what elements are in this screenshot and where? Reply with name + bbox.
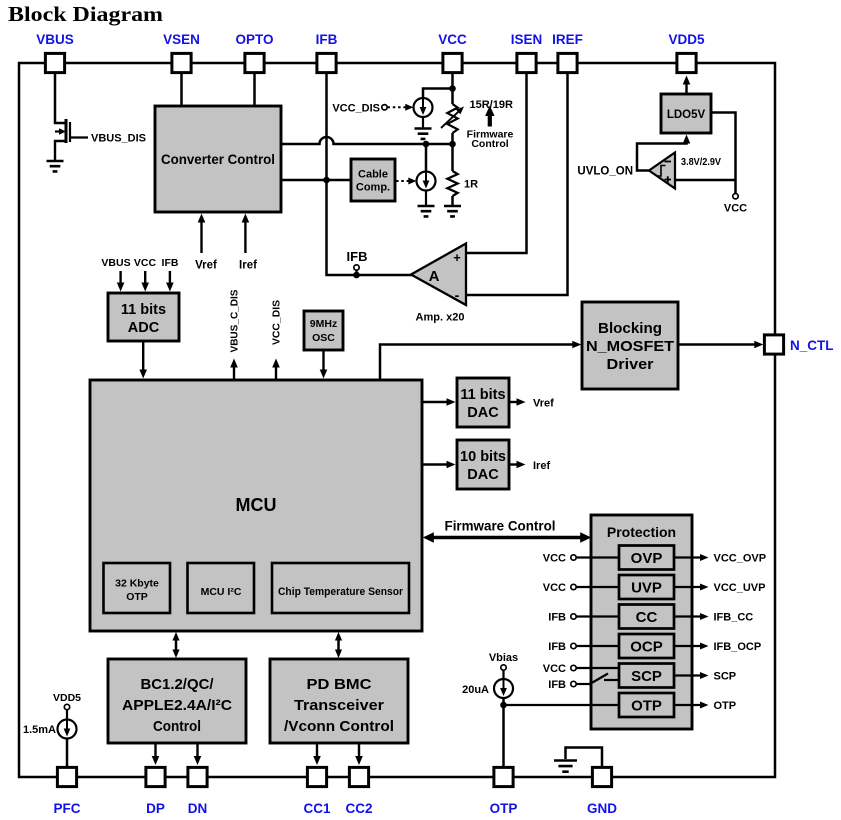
svg-text:3.8V/2.9V: 3.8V/2.9V xyxy=(681,156,721,168)
svg-text:VDD5: VDD5 xyxy=(53,692,81,704)
junction IFB / converter lower output xyxy=(323,177,330,184)
pin DP xyxy=(146,767,165,816)
svg-text:PFC: PFC xyxy=(54,801,81,816)
terminal VCC input SCP xyxy=(571,665,576,670)
block converter control xyxy=(155,106,281,212)
svg-text:1R: 1R xyxy=(464,179,478,191)
junction IFB node at amp output xyxy=(353,272,360,279)
svg-text:+: + xyxy=(453,250,461,265)
svg-text:CC1: CC1 xyxy=(303,801,330,816)
protection sub-block UVP xyxy=(619,575,674,599)
wire comparator + input xyxy=(675,179,736,182)
current source I4 (1.5mA) xyxy=(58,717,77,739)
svg-text:IFB: IFB xyxy=(548,612,566,624)
svg-text:VBUS_C_DIS: VBUS_C_DIS xyxy=(229,290,241,353)
arrowhead into driver xyxy=(572,341,581,349)
pin VCC xyxy=(438,32,467,73)
current source I2 (cable comp controlled) xyxy=(417,169,436,191)
terminal VDD5 1.5mA xyxy=(64,704,69,709)
svg-text:OSC: OSC xyxy=(312,332,335,344)
svg-text:VCC_OVP: VCC_OVP xyxy=(714,553,767,565)
pin IFB xyxy=(316,32,338,73)
svg-text:Blocking: Blocking xyxy=(598,320,662,337)
protection sub-block SCP xyxy=(619,664,674,688)
protection sub-block OCP xyxy=(619,634,674,658)
wire outer border (top/left/right/bottom rails) xyxy=(19,63,775,777)
svg-text:VCC: VCC xyxy=(438,32,467,47)
svg-text:10 bits: 10 bits xyxy=(460,449,506,465)
svg-text:UVP: UVP xyxy=(631,580,662,597)
stub IFB test point xyxy=(355,271,357,276)
wire IFB input stub (switch) xyxy=(577,683,591,685)
svg-text:IREF: IREF xyxy=(552,32,583,47)
resistor R1 15R/19R (variable) xyxy=(447,104,457,133)
block LDO5V xyxy=(661,94,711,133)
dashed wire VCC_DIS to I1 xyxy=(388,106,408,108)
wire I4 to PFC pin xyxy=(66,739,69,767)
svg-text:OPTO: OPTO xyxy=(235,32,273,47)
terminal IFB input SCP xyxy=(571,681,576,686)
ground below I2 xyxy=(418,206,435,216)
pin ISEN xyxy=(511,32,543,73)
wire I1 to ground xyxy=(422,117,424,129)
svg-text:Vbias: Vbias xyxy=(489,652,518,664)
terminal IFB input OCP xyxy=(571,643,576,648)
block blocking N_MOSFET driver xyxy=(582,302,678,389)
arrow MCU to 11 bits DAC xyxy=(422,401,449,403)
svg-text:BC1.2/QC/: BC1.2/QC/ xyxy=(141,676,215,693)
wire LDO5V to VDD5 pin xyxy=(685,82,687,94)
junction 20uA / OTP comparator line xyxy=(500,702,507,709)
terminal Vbias xyxy=(501,665,506,670)
svg-text:OCP: OCP xyxy=(630,639,663,656)
wire IFB pin down to amp output node xyxy=(327,74,414,275)
svg-text:Vref: Vref xyxy=(195,260,217,272)
arrow VBUS into ADC xyxy=(119,271,121,285)
wire IREF pin to amp - input xyxy=(466,74,568,295)
block MCU I2C xyxy=(188,563,255,613)
svg-text:VSEN: VSEN xyxy=(163,32,200,47)
block 11 bits ADC xyxy=(108,293,179,341)
resistor R2 1R xyxy=(447,171,457,196)
wire VCC pin down to 15R/19R xyxy=(451,74,454,104)
block 32 Kbyte OTP xyxy=(104,563,171,613)
svg-text:VCC_DIS: VCC_DIS xyxy=(332,102,380,114)
svg-text:VCC: VCC xyxy=(543,663,566,675)
wire junction to I2 xyxy=(425,144,428,172)
terminal VCC (comparator supply) xyxy=(733,194,738,199)
transistor Q1 (VBUS discharge N-MOSFET) xyxy=(55,119,70,161)
wire UVP output xyxy=(674,586,703,588)
wire VCC input into OVP xyxy=(577,556,620,558)
svg-text:Amp. x20: Amp. x20 xyxy=(416,312,465,324)
svg-text:GND: GND xyxy=(587,801,617,816)
junction upper converter line / VCC resistor chain xyxy=(449,141,456,148)
wire OTP output xyxy=(674,704,703,706)
wire ISEN pin to amp + input xyxy=(466,74,527,253)
svg-text:VBUS_DIS: VBUS_DIS xyxy=(91,133,146,145)
wire junction to current source I1 xyxy=(423,89,453,99)
svg-text:VCC: VCC xyxy=(724,203,747,215)
svg-text:APPLE2.4A/I²C: APPLE2.4A/I²C xyxy=(122,697,232,714)
svg-text:IFB: IFB xyxy=(548,679,566,691)
pin CC2 xyxy=(345,767,372,816)
arrow Iref to converter control xyxy=(244,220,246,253)
arrow BC block to DP pin xyxy=(154,743,156,759)
junction VCC branch to I1 xyxy=(449,85,456,92)
svg-text:Firmware Control: Firmware Control xyxy=(445,518,556,534)
block protection xyxy=(591,515,692,729)
wire converter lower output to cable comp xyxy=(281,179,351,182)
svg-text:DAC: DAC xyxy=(467,405,499,421)
ground below Q1 xyxy=(47,161,64,171)
svg-text:DN: DN xyxy=(188,801,208,816)
arrow across variable resistor xyxy=(441,110,460,128)
switch on SCP IFB input xyxy=(589,674,608,685)
arrowhead into I1 xyxy=(405,104,413,111)
svg-text:IFB: IFB xyxy=(316,32,338,47)
svg-text:SCP: SCP xyxy=(714,671,737,683)
pin GND xyxy=(587,767,617,816)
svg-text:/Vconn Control: /Vconn Control xyxy=(284,718,394,735)
current source I3 (20uA) xyxy=(494,676,513,698)
svg-text:Iref: Iref xyxy=(239,260,257,272)
pin VBUS xyxy=(36,32,74,73)
svg-text:VBUS: VBUS xyxy=(36,32,74,47)
wire VDD5 terminal to current source xyxy=(66,710,68,720)
svg-text:-: - xyxy=(455,287,460,303)
svg-text:VCC: VCC xyxy=(543,582,566,594)
block 10 bits DAC xyxy=(457,440,509,489)
wire SCP output xyxy=(674,674,703,676)
pin VSEN xyxy=(163,32,200,73)
wire I3 to OTP pin xyxy=(502,698,505,766)
pin DN xyxy=(188,767,208,816)
pin CC1 xyxy=(303,767,330,816)
block BC1.2/QC/APPLE2.4A/I2C control xyxy=(108,659,246,743)
arrowhead into LDO bottom xyxy=(683,135,691,144)
svg-text:OTP: OTP xyxy=(714,700,737,712)
wire 20uA node to OTP comparator xyxy=(504,704,620,706)
svg-text:OVP: OVP xyxy=(631,550,663,567)
svg-text:11 bits: 11 bits xyxy=(121,302,166,318)
terminal VCC_DIS xyxy=(382,105,387,110)
block chip temperature sensor xyxy=(272,563,409,613)
svg-text:OTP: OTP xyxy=(126,591,148,603)
dashed wire cable comp to I2 xyxy=(396,180,410,182)
ground (chip GND) xyxy=(554,761,577,772)
arrow VCC into ADC xyxy=(144,271,146,285)
arrow IFB into ADC xyxy=(169,271,171,285)
svg-text:MCU: MCU xyxy=(236,495,277,515)
wire OPTO pin to converter control xyxy=(253,74,256,106)
svg-text:VDD5: VDD5 xyxy=(668,32,705,47)
svg-text:CC2: CC2 xyxy=(345,801,372,816)
svg-text:IFB: IFB xyxy=(548,641,566,653)
pin N_CTL xyxy=(764,335,833,354)
arrow MCU to VBUS_C_DIS xyxy=(233,365,235,380)
arrow PD block to CC2 pin xyxy=(358,743,360,759)
svg-text:ADC: ADC xyxy=(128,320,160,336)
svg-text:N_CTL: N_CTL xyxy=(790,338,834,353)
pin IREF xyxy=(552,32,583,73)
protection sub-block OTP xyxy=(619,693,674,717)
svg-text:IFB_OCP: IFB_OCP xyxy=(714,641,762,653)
wire OCP output xyxy=(674,645,703,647)
wire 1R to ground xyxy=(451,196,454,206)
wire 15R/19R to 1R xyxy=(451,133,454,171)
arrow MCU to VCC_DIS xyxy=(275,365,277,380)
wire comparator output to LDO enable xyxy=(637,139,687,171)
svg-text:DAC: DAC xyxy=(467,467,499,483)
wire IFB input into CC xyxy=(577,615,620,617)
svg-text:CC: CC xyxy=(636,609,658,626)
block MCU xyxy=(90,380,422,631)
svg-text:ISEN: ISEN xyxy=(511,32,543,47)
svg-text:PD BMC: PD BMC xyxy=(307,676,372,693)
wire VBUS pin to Q1 drain xyxy=(55,74,66,123)
wire Vbias to current source xyxy=(502,670,504,679)
svg-text:11 bits: 11 bits xyxy=(460,387,505,403)
bidirectional arrow MCU to BC1.2 block xyxy=(175,638,178,653)
terminal VCC input UVP xyxy=(571,584,576,589)
wire converter upper output with hop over IFB xyxy=(281,137,453,144)
firmware control up arrow (thick) xyxy=(488,115,492,127)
block 11 bits DAC xyxy=(457,378,509,427)
arrow Vref to converter control xyxy=(200,220,202,253)
comparator U2 (UVLO with hysteresis) xyxy=(649,153,675,189)
pin PFC xyxy=(54,767,81,816)
svg-text:UVLO_ON: UVLO_ON xyxy=(577,166,633,178)
svg-text:VCC_DIS: VCC_DIS xyxy=(271,300,283,345)
arrow MCU to 10 bits DAC xyxy=(422,463,449,465)
svg-text:20uA: 20uA xyxy=(462,684,489,696)
svg-text:LDO5V: LDO5V xyxy=(667,109,706,121)
wire MCU to driver xyxy=(380,345,574,381)
pin OTP xyxy=(490,767,518,816)
svg-text:9MHz: 9MHz xyxy=(310,318,337,330)
junction to current source I2 xyxy=(423,141,430,148)
svg-text:N_MOSFET: N_MOSFET xyxy=(586,338,674,355)
wire VCC input into SCP xyxy=(577,667,620,669)
svg-text:Chip Temperature Sensor: Chip Temperature Sensor xyxy=(278,586,404,598)
svg-text:VCC: VCC xyxy=(134,257,157,269)
protection sub-block CC xyxy=(619,605,674,629)
arrowhead into I2 xyxy=(408,178,416,185)
svg-text:Transceiver: Transceiver xyxy=(294,697,384,714)
svg-text:IFB: IFB xyxy=(347,249,368,264)
svg-text:Cable: Cable xyxy=(358,169,388,181)
svg-text:Protection: Protection xyxy=(607,524,676,540)
arrow ADC to MCU xyxy=(142,341,144,372)
svg-text:Vref: Vref xyxy=(533,398,554,410)
svg-text:VCC_UVP: VCC_UVP xyxy=(714,582,766,594)
arrow 11 bits DAC output xyxy=(509,401,519,403)
bidirectional firmware control arrow xyxy=(431,536,583,540)
wire driver to N_CTL pin xyxy=(678,343,757,345)
wire switch to SCP box xyxy=(604,679,619,681)
block 9MHz OSC xyxy=(304,311,343,350)
arrow OSC to MCU xyxy=(322,350,324,372)
svg-text:Comp.: Comp. xyxy=(356,182,390,194)
op-amp A (Amp. x20) xyxy=(411,244,466,306)
svg-text:SCP: SCP xyxy=(631,668,662,685)
wire VSEN pin to converter control xyxy=(180,74,183,106)
terminal IFB input CC xyxy=(571,614,576,619)
svg-text:VCC: VCC xyxy=(543,553,566,565)
wire LDO5V output to VCC terminal xyxy=(711,113,736,194)
svg-text:DP: DP xyxy=(146,801,165,816)
wire IFB input into OCP xyxy=(577,645,620,647)
svg-text:32 Kbyte: 32 Kbyte xyxy=(115,578,159,590)
current source I1 (VCC discharge) xyxy=(414,95,433,117)
svg-text:IFB: IFB xyxy=(162,257,179,269)
pin VDD5 xyxy=(668,32,705,73)
svg-text:Converter Control: Converter Control xyxy=(161,151,275,167)
ground below 1R xyxy=(444,206,461,216)
block PD BMC transceiver/Vconn control xyxy=(270,659,408,743)
svg-text:Driver: Driver xyxy=(607,356,654,373)
svg-text:A: A xyxy=(429,268,440,285)
wire GND pin to ground symbol xyxy=(566,748,603,767)
wire I2 to ground xyxy=(425,191,427,207)
wire CC output xyxy=(674,615,703,617)
arrow BC block to DN pin xyxy=(196,743,198,759)
wire VCC input into UVP xyxy=(577,586,620,588)
svg-text:MCU I²C: MCU I²C xyxy=(201,586,242,598)
bidirectional arrow MCU to PD BMC block xyxy=(337,638,340,653)
svg-text:OTP: OTP xyxy=(490,801,518,816)
ground below I1 xyxy=(415,129,432,139)
terminal VCC input OVP xyxy=(571,555,576,560)
arrow PD block to CC1 pin xyxy=(316,743,318,759)
arrow 10 bits DAC output xyxy=(509,463,519,465)
wire Q1 gate to VBUS_DIS label xyxy=(70,136,88,138)
svg-text:Control: Control xyxy=(153,718,201,735)
svg-text:Block Diagram: Block Diagram xyxy=(8,2,164,26)
svg-text:OTP: OTP xyxy=(631,698,662,715)
terminal IFB test point xyxy=(354,265,359,270)
svg-text:Iref: Iref xyxy=(533,460,550,472)
block cable comp xyxy=(351,159,395,201)
svg-text:IFB_CC: IFB_CC xyxy=(714,612,754,624)
pin OPTO xyxy=(235,32,273,73)
svg-text:VBUS: VBUS xyxy=(101,257,130,269)
svg-text:Control: Control xyxy=(471,138,508,150)
protection sub-block OVP xyxy=(619,546,674,570)
wire OVP output xyxy=(674,556,703,558)
svg-text:1.5mA: 1.5mA xyxy=(23,724,56,736)
